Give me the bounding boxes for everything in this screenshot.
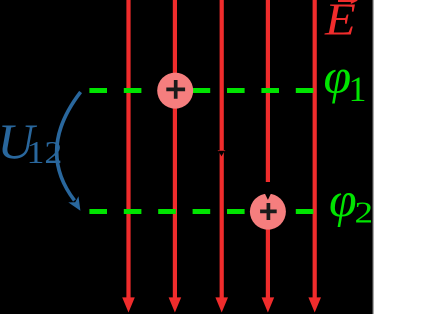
field line 5 [313, 0, 317, 298]
field line 2 [173, 0, 177, 298]
charge Q2 [250, 194, 286, 230]
svg-text:φ: φ [324, 48, 352, 104]
field line 1 [126, 0, 130, 298]
svg-text:E: E [324, 0, 356, 45]
arrowhead of field line 2 [169, 297, 182, 312]
arrowhead of voltage arc [68, 196, 80, 211]
vector arrow over E label [338, 0, 354, 2]
arrowhead of field line 3 [215, 297, 228, 312]
field line 3 [220, 0, 224, 298]
field line 4 lower segment [266, 228, 270, 298]
arrowhead of field line 5 [308, 297, 321, 312]
plus sign of Q2 [260, 203, 277, 220]
voltage arc U12 [57, 92, 81, 201]
svg-text:2: 2 [355, 195, 374, 229]
svg-text:φ: φ [329, 172, 357, 228]
svg-text:1: 1 [349, 69, 367, 109]
dark arrowhead notch above charge Q2 [264, 193, 271, 200]
charge Q1 [157, 73, 193, 109]
arrowhead of field line 4 [262, 297, 275, 312]
equipotential line phi1 [89, 88, 316, 93]
plus sign of Q1 [166, 80, 185, 99]
red bulge of mid arrowhead on field line 3 [218, 150, 226, 154]
field line 4 upper segment [266, 0, 270, 182]
arrowhead of field line 1 [122, 297, 135, 312]
dark arrowhead notch on field line 3 [218, 151, 224, 157]
equipotential line phi2 [89, 209, 316, 214]
arrowhead of vector arrow [351, 0, 358, 4]
